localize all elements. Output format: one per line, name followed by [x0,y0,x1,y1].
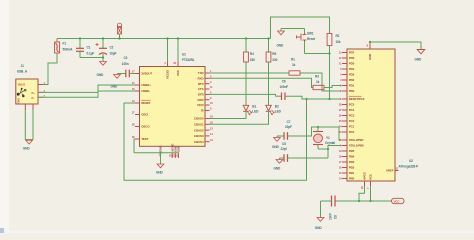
svg-text:R4: R4 [250,52,254,56]
label GND bottom [315,226,323,230]
label VBUS [18,82,26,86]
svg-text:PC1: PC1 [349,125,355,129]
svg-text:AREF: AREF [386,169,394,173]
pin J1 GND bottom [25,104,33,110]
pin U2 PB0 [339,176,355,180]
wire crystal bottom to XTAL1 [318,148,328,150]
junction reset bus [305,98,307,100]
junction C6 reset [328,98,330,100]
ground sym SW1 [278,29,285,35]
label GND U1 [156,171,164,175]
svg-text:U1: U1 [182,53,186,57]
ground sym bottom [317,218,324,222]
junction VCCIO [166,37,168,39]
wire U2 gnd to GND [370,42,421,50]
wire C3 right lead [129,73,135,75]
svg-text:PC5: PC5 [349,103,355,107]
wire U1 gnd rail [134,152,179,154]
svg-text:DCD: DCD [197,103,204,107]
svg-text:USB_A: USB_A [17,70,28,74]
wire VCC drop [177,39,179,63]
svg-text:D-: D- [32,96,35,100]
label R1 [291,58,296,68]
pin J1 VBUS [38,82,46,85]
wire J1 D- to U1 [38,91,135,97]
svg-text:330: 330 [272,58,277,62]
svg-text:GND: GND [97,73,105,77]
testpoint TP1 [117,23,121,34]
wire U1 gnd stem [160,153,162,164]
ground sym U1 [157,164,164,168]
pin U2 PC0 [339,130,355,134]
svg-text:RESET/PC6: RESET/PC6 [349,97,365,101]
resistor R2 [327,34,332,46]
pin U1 DSR [198,96,212,102]
pin U1 GND bottom [175,145,180,158]
wire crystal top lead [317,127,319,132]
resistor R5 [266,52,271,62]
wire VCC rail [335,200,392,202]
svg-text:GND: GND [315,226,323,230]
svg-text:VCC: VCC [176,69,180,76]
pin U1 DCD [197,101,213,107]
label U1 [182,53,195,63]
svg-text:VCC: VCC [369,173,373,180]
pin U1 3V3OUT [132,70,153,76]
pin U1 RESET [132,99,151,105]
pin U2 AREF [386,167,399,173]
wire R1 to U2 PD0 [300,73,341,91]
pin U1 GND bottom [172,145,177,158]
svg-text:R5: R5 [272,52,276,56]
svg-text:PC3: PC3 [349,114,355,118]
junction C1 top [79,37,81,39]
svg-text:TEST: TEST [141,137,148,141]
svg-text:500mA: 500mA [63,48,74,52]
pin U1 OSCO [132,123,150,129]
svg-text:PC2: PC2 [349,119,355,123]
svg-text:R3: R3 [315,75,319,79]
pin U1 GND bottom [159,145,163,158]
pin U2 PC3 [339,113,355,117]
svg-text:330: 330 [250,58,255,62]
wire C2 top lead [102,39,104,49]
svg-text:10µF: 10µF [110,52,117,56]
label F1 [63,42,74,52]
ground sym C5 [276,158,283,163]
wire SW1 gnd lead [281,28,305,30]
svg-text:GND: GND [272,145,280,149]
svg-text:DSR: DSR [198,98,205,102]
svg-text:LED: LED [252,110,259,114]
svg-text:C5: C5 [282,142,286,146]
wire U1 RESET to reset bus [124,99,307,180]
svg-text:GND: GND [17,98,21,104]
ground sym top right [417,50,425,54]
wire R5 to LED B2 [268,62,270,105]
label SW1 [307,32,316,42]
svg-text:TXD: TXD [198,71,205,75]
wire R3 to U2 PD1 [324,86,341,88]
label C2 [110,46,117,56]
junction SW1 R2 [328,52,330,54]
pin U2 PD1 [340,83,354,87]
svg-text:Y1: Y1 [326,136,330,140]
svg-text:GND: GND [23,147,31,151]
wire C7 to XTAL2 net [288,127,319,136]
svg-text:10k: 10k [336,40,341,44]
bottom window edge [0,228,474,233]
wire C6 left lead [276,95,282,97]
wire C1 top lead [79,39,81,49]
pin U2 PB4 [339,154,355,158]
op-amp U1 body [140,67,206,147]
wire AVCC jog [359,186,365,201]
wire TXD to R1 [210,72,290,74]
junction VCC [177,37,179,39]
capacitor C5 [284,154,288,162]
left page margin [0,0,9,233]
wire B1 to CBUS0 [210,111,247,118]
svg-text:RTS: RTS [198,82,204,86]
pin U2 PC4 [339,108,355,112]
junction VCC rail [369,200,371,202]
svg-text:OSCI: OSCI [141,113,148,117]
svg-text:OSCO: OSCO [141,125,150,129]
svg-text:C6: C6 [282,80,286,84]
pin U1 OSCI [132,111,148,117]
junction crystal bottom [327,148,329,150]
pin U2 PD7 [339,50,355,54]
svg-text:PB1: PB1 [349,171,355,175]
wire C2 bottom lead [102,54,104,61]
svg-text:22pf: 22pf [281,147,288,151]
pin U1 CBUS2 [194,126,213,132]
wire SW1 to reset net [305,53,330,55]
switch SW1 [297,29,307,54]
svg-text:3V3OUT: 3V3OUT [141,72,152,76]
pin U2 PB5 [339,149,355,153]
wire C6 to RESET pin [285,96,341,99]
label J1 [17,64,28,74]
svg-text:PD2: PD2 [349,78,355,82]
LED B2 [266,105,274,114]
capacitor C6 [282,92,286,100]
svg-text:RI: RI [201,109,204,113]
op-amp U2 body [347,49,395,181]
svg-text:C1: C1 [87,46,91,50]
wire R5 top [268,39,270,53]
label C5 [281,142,288,151]
label R5 [272,52,277,62]
svg-text:C7: C7 [287,120,291,124]
svg-text:GND: GND [415,58,423,62]
pin U2 AVCC [360,171,367,189]
wire XTAL1 riser [328,146,341,159]
pin U1 CTS [198,85,213,91]
wire F1 top lead [56,39,58,43]
capacitor C8 [332,196,336,207]
junction TP1 [118,37,120,39]
svg-text:PB0: PB0 [349,177,355,181]
label GND J1 [23,147,31,151]
label GND vertical J1 [17,98,21,104]
svg-text:CBUS2: CBUS2 [194,128,204,132]
ground sym below C2 [100,62,107,66]
wire R4 top [245,39,247,53]
wire J1 gnd loop [25,110,33,140]
label GND C7 [272,145,280,149]
svg-text:C8: C8 [333,215,337,219]
svg-text:LED: LED [275,110,282,114]
pin U1 VCCIO [164,61,169,79]
svg-text:DTR: DTR [198,93,205,97]
svg-text:RXD: RXD [198,77,205,81]
wire VCCIO drop [167,39,169,63]
svg-text:GND: GND [368,53,372,60]
pin U1 RXD [198,75,212,81]
svg-text:B1: B1 [252,105,256,109]
pin U2 PB3 [339,160,355,164]
svg-text:PB5: PB5 [349,149,355,153]
svg-text:1k: 1k [316,80,320,84]
pin U2 RESET/PC6 [340,96,365,101]
pin U1 TEST [132,135,149,141]
label GND below C2 [97,73,105,77]
wire F1 to J1 VBUS [38,53,57,85]
label C1 [87,46,95,56]
label GND C3 [111,85,119,89]
pin U2 GND top [367,44,372,61]
pin U2 XTAL2/PB7 [339,138,364,142]
svg-text:VCC: VCC [394,200,401,204]
svg-text:CBUS3: CBUS3 [194,134,204,138]
wire C7 gnd lead [277,135,284,137]
crystal Y1 [313,132,323,145]
resistor R1 [289,71,300,75]
pin U2 PD0 [340,89,354,93]
capacitor C2 polarized [96,43,108,55]
svg-text:XTAL1/PB6: XTAL1/PB6 [349,144,364,148]
svg-text:FT232RL: FT232RL [182,58,195,62]
junction U1 gnd [159,152,161,154]
wire rail riser to R2 [271,17,330,39]
junction R4 top [245,37,247,39]
connector J1 body [16,79,38,104]
wire +5V rail [57,38,271,40]
svg-text:AVCC: AVCC [363,171,367,180]
resistor R3 [313,85,324,89]
svg-text:Reset: Reset [307,37,316,41]
svg-text:R1: R1 [291,58,295,62]
pin U1 RTS [198,80,212,86]
junction R5 top [267,37,269,39]
svg-text:PC0: PC0 [349,130,355,134]
svg-text:Crystal: Crystal [325,141,335,145]
pin U2 XTAL1/PB6 [340,143,364,147]
pin U1 CBUS4 [194,138,213,144]
pin U2 PC5 [339,102,355,106]
svg-text:0.1µF: 0.1µF [87,52,95,56]
svg-text:C3: C3 [124,56,128,60]
wire R4 to LED B1 [245,62,247,105]
svg-text:PD3: PD3 [349,73,355,77]
pin U1 RI [201,107,212,113]
pin U1 CBUS3 [194,132,213,138]
svg-text:PD6: PD6 [349,56,355,60]
svg-text:J1: J1 [21,64,25,68]
pin U2 PC1 [339,124,355,128]
svg-text:CTS: CTS [198,87,204,91]
capacitor C1 [76,48,84,51]
svg-text:PD0: PD0 [349,89,355,93]
pin U1 TXD [198,69,212,75]
junction C2 top [102,37,104,39]
junction C2 gnd [102,56,104,58]
pin U2 PD4 [340,67,354,71]
svg-text:USBD+: USBD+ [141,83,151,87]
pin U1 CBUS0 [194,115,213,121]
svg-text:PD1: PD1 [349,84,355,88]
svg-text:CBUS1: CBUS1 [194,123,204,127]
svg-text:VCCIO: VCCIO [166,69,170,79]
pin U1 CBUS1 [194,121,213,127]
svg-text:PD4: PD4 [349,67,355,71]
pin U1 USBD- [132,87,150,93]
svg-text:GND: GND [156,171,164,175]
wire DTR to C6 [210,94,276,96]
svg-text:GND: GND [277,44,285,48]
svg-text:GND: GND [111,85,119,89]
ground sym J1 [26,140,33,144]
svg-text:100n: 100n [122,62,129,66]
svg-text:CBUS4: CBUS4 [194,140,204,144]
wire VCC drop bottom [370,186,372,201]
fuse F1 [55,42,60,53]
svg-text:U2: U2 [409,159,413,163]
wire RXD to R3 [210,78,314,87]
pin U2 PB1 [339,171,355,175]
label GND SW1 [277,44,285,48]
pin U1 USBD+ [132,81,151,87]
svg-text:RESET: RESET [141,101,151,105]
svg-text:GND: GND [177,145,181,152]
svg-text:PD7: PD7 [349,51,355,55]
wire C5 gnd lead [280,157,285,159]
capacitor C7 [284,132,288,140]
label U2 [399,159,420,168]
pin U2 PD6 [339,56,355,60]
label C8 [328,213,337,220]
wire TEST to gnd rail [134,139,135,153]
svg-text:PB2: PB2 [349,166,355,170]
wire C3 left lead [117,73,126,75]
label B1 [252,105,259,114]
LED B1 [243,105,251,114]
svg-text:F1: F1 [63,42,67,46]
pin U1 VCC [173,61,180,76]
junction U2 gnd top [369,41,371,44]
wire C1 bottom lead [79,51,81,57]
pin U2 PB2 [339,165,355,169]
svg-text:GND: GND [274,167,282,171]
resistor R4 [244,52,249,62]
wire crystal bottom lead [317,145,319,150]
wire C8 gnd lead [321,201,332,218]
pin U2 PC2 [339,119,355,123]
label GND top right [415,58,423,62]
label C7 [285,120,292,129]
pin U2 PD2 [340,78,354,82]
wire J1 D+ to U1 [38,85,135,92]
svg-text:PB3: PB3 [349,160,355,164]
label Y1 [325,136,335,145]
svg-text:PB4: PB4 [349,155,355,159]
svg-text:XTAL2/PB7: XTAL2/PB7 [349,138,364,142]
svg-text:PD5: PD5 [349,62,355,66]
pin U1 DTR [198,91,212,97]
junction AVCC rail [358,200,360,202]
pin U2 VCC [366,173,373,189]
pin J1 D+ [32,90,46,95]
ground sym C7 [274,136,281,141]
wire C1-C2 ground join [80,57,103,59]
wire R2 bottom to RESET [329,46,331,100]
label GND C5 [274,167,282,171]
svg-text:SW1: SW1 [307,32,314,36]
wire TP1 lead [119,34,121,39]
wire C5 to XTAL1 [288,157,329,159]
pin J1 D- [32,95,46,100]
label R3 [315,75,320,85]
svg-text:10nF: 10nF [328,213,332,220]
label C6 [280,80,289,90]
pin U2 PD5 [339,61,355,65]
junction crystal top [317,126,319,128]
pin U2 PD3 [340,72,354,76]
svg-text:VBUS: VBUS [18,82,26,86]
wire B2 to CBUS1 [210,111,269,124]
label R2 [336,34,341,44]
label R4 [250,52,255,62]
svg-text:ATmega328-P: ATmega328-P [399,164,420,168]
svg-text:1k: 1k [292,63,296,67]
wire crystal top to XTAL2 [318,127,341,140]
supply VCC symbol [392,198,405,203]
label C3 [122,56,129,66]
svg-text:B2: B2 [275,105,279,109]
label B2 [275,105,282,114]
svg-text:CBUS0: CBUS0 [194,117,204,121]
svg-text:22pF: 22pF [285,125,292,129]
svg-text:C2: C2 [110,46,114,50]
svg-text:100nF: 100nF [280,85,289,89]
svg-text:GND: GND [159,145,163,152]
ground sym C3 [114,75,121,79]
pin U1 AGND bottom [169,143,174,158]
svg-text:PC4: PC4 [349,108,355,112]
svg-text:USBD-: USBD- [141,89,150,93]
svg-text:R2: R2 [336,34,340,38]
usb icon [17,88,26,97]
capacitor C3 [126,70,130,78]
